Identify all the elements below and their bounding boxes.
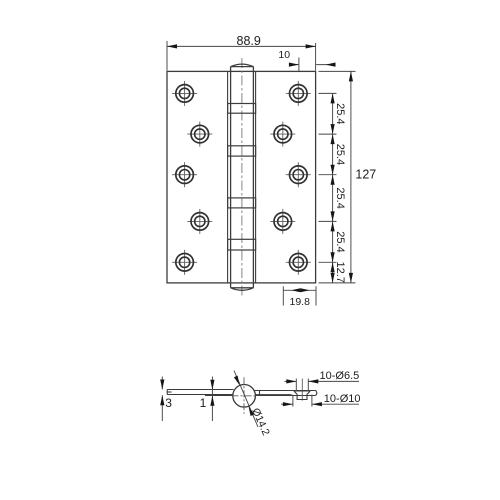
svg-text:88.9: 88.9 xyxy=(237,34,261,48)
screw hole R5 xyxy=(286,250,311,275)
knuckle band 3 xyxy=(228,198,256,208)
svg-text:10-Ø6.5: 10-Ø6.5 xyxy=(320,370,360,382)
screw hole R1 xyxy=(286,81,311,106)
svg-text:127: 127 xyxy=(355,168,376,182)
svg-text:25.4: 25.4 xyxy=(334,103,346,124)
screw hole L2 xyxy=(187,122,212,147)
left leaf inner edge xyxy=(227,71,229,283)
svg-text:10-Ø10: 10-Ø10 xyxy=(324,393,361,405)
dimension 127 xyxy=(350,71,352,283)
screw hole L1 xyxy=(172,81,197,106)
svg-text:25.4: 25.4 xyxy=(334,187,346,208)
side view: barrel circle xyxy=(233,385,256,408)
svg-text:1: 1 xyxy=(200,396,207,410)
dimension chain 25.4 line xyxy=(332,93,334,283)
screw hole R4 xyxy=(270,209,295,234)
knuckle band 2 xyxy=(228,146,256,156)
svg-text:19.8: 19.8 xyxy=(290,296,311,308)
screw hole L4 xyxy=(187,209,212,234)
dimension 10-O10 xyxy=(281,403,359,405)
svg-text:3: 3 xyxy=(165,396,172,410)
svg-text:Ø14.2: Ø14.2 xyxy=(249,406,272,437)
barrel centerline xyxy=(241,58,243,297)
countersink detail: extension lines O10 xyxy=(293,395,312,407)
leader line O14.2 xyxy=(234,371,258,428)
countersink section xyxy=(294,391,310,400)
side view: left leaf bar xyxy=(167,390,234,395)
screw hole R3 xyxy=(286,162,311,187)
dimension 19.8 xyxy=(283,286,316,305)
right leaf inner edge xyxy=(255,71,257,283)
barrel tube xyxy=(231,64,254,290)
screw hole R2 xyxy=(270,122,295,147)
hole row extension ticks xyxy=(319,71,356,283)
dimension 88.9 xyxy=(167,45,316,47)
side view: right leaf bar xyxy=(254,391,316,396)
dimension 88.9 extension lines xyxy=(167,41,316,71)
countersink detail: hole centerline xyxy=(301,379,303,401)
svg-text:25.4: 25.4 xyxy=(334,231,346,252)
knuckle band 4 xyxy=(228,239,256,250)
svg-text:12.7: 12.7 xyxy=(334,261,346,282)
knuckle band 1 xyxy=(228,104,256,114)
countersink detail: extension lines O6.5 xyxy=(296,379,308,391)
svg-text:10: 10 xyxy=(278,49,290,61)
screw hole L5 xyxy=(172,250,197,275)
side view: vertical centerline xyxy=(243,377,245,413)
dimension 10 xyxy=(289,58,336,72)
side view: thick overlap line xyxy=(205,394,292,396)
hinge plate outline (front view) xyxy=(167,71,316,283)
screw hole L3 xyxy=(172,162,197,187)
dimension 3 (leaf thickness) xyxy=(161,377,163,422)
dimension 10-O6.5 xyxy=(285,380,360,382)
svg-text:25.4: 25.4 xyxy=(334,144,346,165)
dimension 1 (leaf offset) xyxy=(211,377,213,422)
side view: horizontal centerline xyxy=(232,395,258,397)
